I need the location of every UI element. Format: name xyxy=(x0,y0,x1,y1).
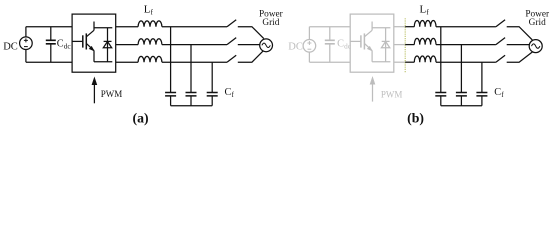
DC source V1 label xyxy=(3,41,18,52)
wire Cf common bus xyxy=(171,105,213,107)
Power Grid label (b) xyxy=(525,10,550,29)
wire gray stub phase B (b) xyxy=(394,44,405,46)
inductor Lf label (b) xyxy=(420,3,430,16)
diode D1 xyxy=(103,28,111,62)
svg-text:f: f xyxy=(501,91,504,99)
converter U2 box xyxy=(350,14,394,72)
svg-text:(a): (a) xyxy=(133,111,149,127)
capacitor Cf phase B xyxy=(186,93,197,106)
wire Cf common bus (b) xyxy=(441,105,482,107)
wire phase B from boundary (b) xyxy=(405,44,414,46)
AC grid source G1 xyxy=(260,39,273,52)
capacitor Cdc (b) xyxy=(325,27,335,63)
switch S1 phase A xyxy=(227,20,236,27)
wire phase C from boundary (b) xyxy=(405,61,414,63)
wire phase A to switch (b) xyxy=(436,26,496,28)
AC grid source G2 xyxy=(529,40,542,53)
wire DC negative rail (b) xyxy=(309,61,350,63)
inductor Lf phase A xyxy=(138,21,162,27)
wire Q2-D2 top bus xyxy=(372,27,390,29)
wire Q1-D1 top bus xyxy=(94,27,112,29)
wire DC positive rail (b) xyxy=(309,26,350,28)
svg-text:PWM: PWM xyxy=(101,89,123,99)
inductor Lf phase C xyxy=(138,56,162,62)
wire DC source bottom lead xyxy=(25,50,27,63)
wire gray stub phase C (b) xyxy=(394,61,405,63)
wire phase A from boundary (b) xyxy=(405,26,414,28)
switch S3 phase C xyxy=(227,55,236,62)
wire phase C to grid xyxy=(238,51,264,63)
wire phase C from converter xyxy=(116,61,138,63)
diode D2 xyxy=(381,28,389,62)
wire phase B to grid (b) xyxy=(507,44,531,46)
inductor Lf phase B (b) xyxy=(414,38,436,44)
wire phase B to grid xyxy=(238,44,261,46)
PWM label (b) xyxy=(381,90,403,100)
capacitor Cf phase A xyxy=(165,93,176,106)
svg-text:f: f xyxy=(232,91,235,99)
wire phase C to switch (b) xyxy=(436,61,496,63)
Power Grid label xyxy=(259,10,284,29)
wire gray stub phase A (b) xyxy=(394,26,405,28)
wire phase B to switch xyxy=(162,44,227,46)
PWM arrow (b) xyxy=(370,77,375,102)
svg-text:C: C xyxy=(337,39,344,50)
boundary marker (yellow dotted) xyxy=(404,18,406,73)
svg-text:C: C xyxy=(225,87,232,98)
transistor Q1 (IGBT) xyxy=(72,22,94,62)
capacitor Cf label xyxy=(225,87,235,99)
wire phase C to switch xyxy=(162,61,227,63)
inductor Lf label xyxy=(144,3,154,16)
transistor Q2 (IGBT) xyxy=(350,22,372,62)
capacitor Cdc label xyxy=(57,39,71,51)
inductor Lf phase B xyxy=(138,39,162,45)
DC source V2 xyxy=(303,40,316,53)
svg-text:DC: DC xyxy=(3,41,18,52)
svg-text:PWM: PWM xyxy=(381,90,403,100)
wire phase B to switch (b) xyxy=(436,44,496,46)
wire DC negative rail xyxy=(26,61,72,63)
svg-text:f: f xyxy=(151,8,154,17)
wire DC source bottom lead (b) xyxy=(308,52,310,62)
PWM label xyxy=(101,89,123,99)
svg-text:Grid: Grid xyxy=(529,18,546,28)
wire tap phase B to Cf (b) xyxy=(460,45,462,93)
svg-text:Grid: Grid xyxy=(262,18,279,28)
inductor Lf phase C (b) xyxy=(414,56,436,62)
capacitor Cdc xyxy=(46,27,56,63)
svg-text:dc: dc xyxy=(64,43,71,51)
switch S5 phase B (b) xyxy=(496,38,505,45)
switch S4 phase A (b) xyxy=(496,20,505,27)
wire phase A to switch xyxy=(162,26,227,28)
wire phase A to grid xyxy=(238,27,264,39)
caption (a) xyxy=(133,111,149,127)
svg-text:DC: DC xyxy=(288,41,303,52)
wire DC source top lead xyxy=(25,27,27,37)
wire phase C to grid (b) xyxy=(507,52,533,62)
DC source V1 xyxy=(20,37,33,50)
capacitor Cf label (b) xyxy=(494,87,504,99)
wire tap phase B to Cf xyxy=(190,45,192,93)
capacitor Cf phase C xyxy=(207,93,218,106)
caption (b) xyxy=(407,111,424,127)
capacitor Cf phase C (b) xyxy=(476,93,487,106)
capacitor Cf phase A (b) xyxy=(435,93,446,106)
svg-text:(b): (b) xyxy=(407,111,424,127)
capacitor Cf phase B (b) xyxy=(456,93,467,106)
wire phase A to grid (b) xyxy=(507,27,533,40)
switch S6 phase C (b) xyxy=(496,55,505,62)
DC source V2 label xyxy=(288,41,303,52)
converter U1 box xyxy=(72,14,116,72)
wire Q1-D1 bottom bus xyxy=(94,61,112,63)
wire tap phase A to Cf xyxy=(170,27,172,93)
capacitor Cdc label (b) xyxy=(337,39,351,51)
wire tap phase C to Cf (b) xyxy=(481,62,483,92)
wire tap phase C to Cf xyxy=(211,62,213,92)
PWM arrow xyxy=(92,78,97,104)
wire phase B from converter xyxy=(116,44,138,46)
wire tap phase A to Cf (b) xyxy=(440,27,442,93)
switch S2 phase B xyxy=(227,38,236,45)
svg-text:C: C xyxy=(57,39,64,50)
svg-text:C: C xyxy=(494,87,501,98)
svg-text:f: f xyxy=(426,8,429,17)
wire DC positive rail xyxy=(26,26,72,28)
wire DC source top lead (b) xyxy=(308,27,310,40)
inductor Lf phase A (b) xyxy=(414,20,436,26)
wire phase A from converter xyxy=(116,26,138,28)
wire Q2-D2 bottom bus xyxy=(372,61,390,63)
